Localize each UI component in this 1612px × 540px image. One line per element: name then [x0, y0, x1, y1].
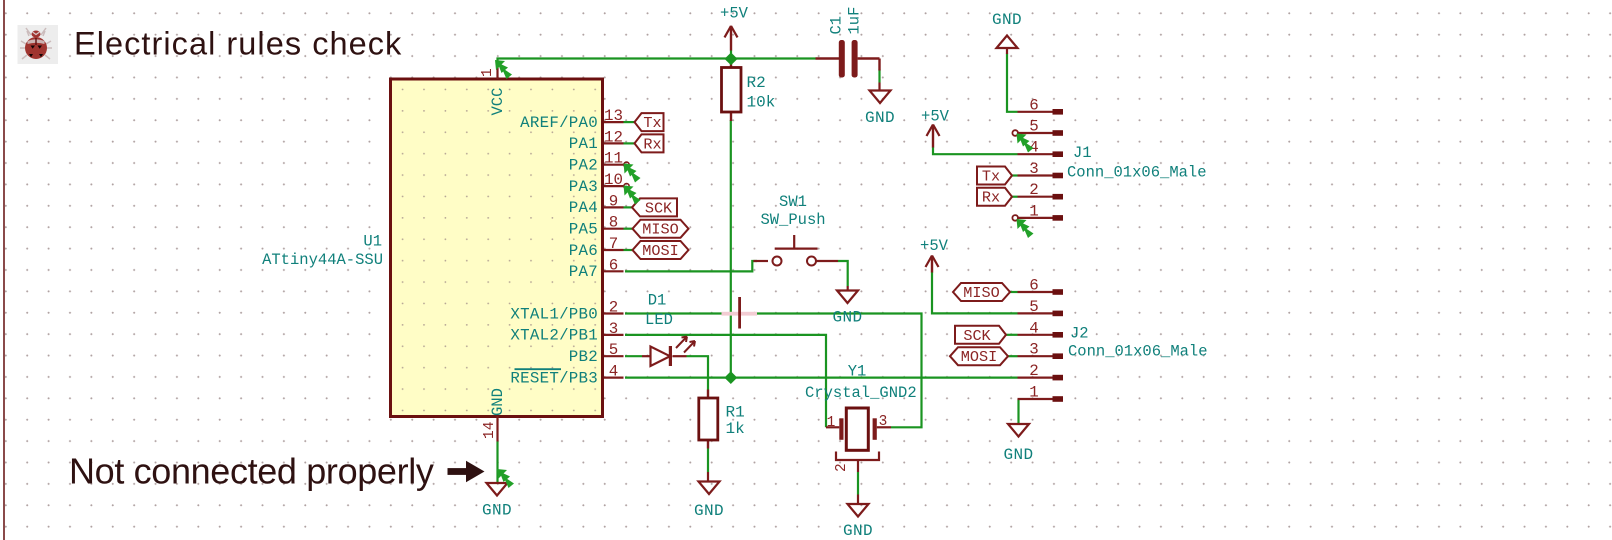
svg-text:6: 6: [609, 256, 618, 274]
crystal Y1: [826, 426, 839, 428]
U1 pin 14 (GND): [496, 416, 498, 442]
marker at GND pin14: [497, 469, 514, 488]
wire R1 bottom to GND: [707, 449, 709, 473]
svg-text:VCC: VCC: [489, 88, 507, 116]
svg-text:XTAL2/PB1: XTAL2/PB1: [510, 327, 598, 345]
svg-text:SCK: SCK: [963, 327, 991, 345]
svg-text:3: 3: [1029, 341, 1038, 359]
svg-text:1: 1: [827, 415, 836, 431]
svg-text:SW_Push: SW_Push: [760, 211, 825, 229]
switch SW1: [753, 260, 768, 262]
svg-text:1: 1: [1029, 384, 1038, 402]
GND below R1: [707, 472, 709, 482]
svg-text:6: 6: [1029, 96, 1038, 114]
svg-text:1k: 1k: [726, 420, 745, 438]
svg-text:AREF/PA0: AREF/PA0: [520, 114, 598, 132]
wire SCK stub pin9: [624, 206, 633, 208]
svg-text:6: 6: [1029, 277, 1038, 295]
connector J2: [1018, 291, 1057, 293]
label SCK at J2: [955, 326, 1006, 344]
svg-text:Rx: Rx: [643, 135, 661, 153]
wire GND to J1 pin6: [1007, 54, 1018, 112]
label MOSI at U1: [633, 241, 689, 259]
svg-text:Electrical rules check: Electrical rules check: [74, 26, 402, 62]
IC U1 body: [391, 79, 603, 417]
GND below J2 pin1: [1008, 424, 1029, 437]
wire SCK label to J2 pin4: [1006, 334, 1018, 336]
svg-text:ATtiny44A-SSU: ATtiny44A-SSU: [262, 251, 383, 269]
svg-text:9: 9: [609, 192, 618, 210]
wire C1 right to GND: [878, 70, 880, 83]
U1 pin 5 (PB2): [604, 355, 624, 357]
wire +5V stem to rail: [730, 50, 732, 59]
label Rx at J1: [977, 188, 1012, 206]
svg-text:3: 3: [879, 414, 888, 430]
connector J1: [1018, 111, 1057, 113]
marker at J1 pin5: [1017, 134, 1034, 153]
marker at U1 pin1: [495, 60, 512, 79]
marker at U1 pin11: [624, 164, 641, 183]
svg-text:Y1: Y1: [848, 363, 867, 381]
svg-text:+5V: +5V: [920, 237, 949, 255]
svg-text:Tx: Tx: [982, 168, 1000, 186]
unconnected circle U1 pin10: [624, 184, 629, 189]
svg-text:5: 5: [1029, 118, 1038, 136]
wire +5V to J2 pin5: [932, 272, 1018, 313]
svg-text:2: 2: [1029, 181, 1038, 199]
U1 pin 4 (RESET/PB3): [604, 377, 624, 379]
svg-text:C1: C1: [828, 16, 846, 35]
annotation arrow: [448, 468, 470, 475]
svg-text:+5V: +5V: [720, 5, 749, 23]
svg-text:J2: J2: [1070, 325, 1089, 343]
svg-text:2: 2: [1029, 362, 1038, 380]
svg-text:XTAL1/PB0: XTAL1/PB0: [510, 305, 598, 323]
GND below U1 pin14: [487, 483, 508, 496]
svg-text:Not connected properly: Not connected properly: [69, 451, 434, 492]
svg-text:GND: GND: [843, 522, 873, 540]
svg-text:1: 1: [1029, 202, 1038, 220]
svg-text:R2: R2: [747, 74, 766, 92]
svg-text:MISO: MISO: [642, 221, 678, 239]
svg-text:SCK: SCK: [645, 199, 673, 217]
svg-text:12: 12: [604, 128, 623, 146]
resistor R1: [707, 390, 709, 399]
svg-text:MOSI: MOSI: [642, 242, 678, 260]
svg-text:PA1: PA1: [569, 135, 598, 153]
svg-text:GND: GND: [992, 11, 1022, 29]
svg-text:Rx: Rx: [982, 189, 1000, 207]
svg-text:D1: D1: [648, 292, 667, 310]
U1 pin 11 (PA2): [604, 164, 624, 166]
marker at U1 pin10: [624, 186, 641, 205]
wire U1 pin14 to GND: [496, 442, 498, 484]
U1 pin 2 (XTAL1/PB0): [604, 312, 624, 314]
svg-text:+5V: +5V: [921, 108, 950, 126]
svg-text:8: 8: [609, 214, 618, 232]
svg-text:MISO: MISO: [963, 284, 999, 302]
svg-text:1uF: 1uF: [846, 7, 864, 35]
svg-text:GND: GND: [865, 109, 895, 127]
wire Y1 pin2 to GND: [857, 472, 859, 495]
wire VCC pin1 to +5V rail: [498, 59, 816, 64]
U1 pin 9 (PA4): [604, 206, 624, 208]
svg-text:PA7: PA7: [569, 263, 598, 281]
svg-text:GND: GND: [832, 309, 862, 327]
label Tx at U1: [635, 113, 664, 131]
svg-text:PB2: PB2: [569, 348, 598, 366]
svg-text:Conn_01x06_Male: Conn_01x06_Male: [1068, 343, 1208, 361]
wire MOSI stub pin7: [624, 249, 633, 251]
+5V above R2: [725, 26, 732, 38]
label SCK at U1: [632, 198, 677, 216]
wire +5V to J1 pin4: [933, 147, 1018, 154]
svg-text:Crystal_GND2: Crystal_GND2: [805, 384, 917, 402]
svg-text:5: 5: [609, 341, 618, 359]
svg-text:3: 3: [609, 320, 618, 338]
wire LED cathode to R1: [687, 356, 709, 389]
svg-text:GND: GND: [489, 388, 507, 416]
svg-text:11: 11: [604, 150, 623, 168]
svg-text:13: 13: [604, 107, 623, 125]
ERC bug icon: [18, 25, 59, 64]
svg-text:Tx: Tx: [643, 114, 661, 132]
GND below SW1: [847, 286, 849, 291]
svg-text:1: 1: [480, 68, 496, 77]
U1 pin 12 (PA1): [604, 142, 624, 144]
svg-text:PA2: PA2: [569, 157, 598, 175]
label MOSI at J2: [950, 347, 1008, 365]
svg-text:GND: GND: [482, 502, 512, 520]
svg-text:SW1: SW1: [779, 193, 807, 211]
wire RESET to J2 pin2: [625, 377, 1018, 379]
GND below C1: [878, 83, 880, 91]
svg-text:14: 14: [482, 422, 498, 439]
capacitor C1: [816, 57, 840, 59]
svg-text:Conn_01x06_Male: Conn_01x06_Male: [1067, 164, 1207, 182]
U1 pin 8 (PA5): [604, 228, 624, 230]
resistor R2: [730, 59, 732, 68]
svg-text:4: 4: [1029, 319, 1038, 337]
wire Tx stub pin13: [624, 121, 635, 123]
svg-text:5: 5: [1029, 298, 1038, 316]
svg-text:4: 4: [609, 363, 618, 381]
marker at J1 pin1: [1017, 219, 1034, 238]
svg-text:MOSI: MOSI: [961, 348, 997, 366]
svg-text:7: 7: [609, 235, 618, 253]
sheet border line: [3, 0, 5, 540]
U1 pin 13 (AREF/PA0): [604, 121, 624, 123]
svg-text:RESET/PB3: RESET/PB3: [510, 369, 598, 387]
label MISO at J2: [953, 283, 1010, 301]
svg-text:PA5: PA5: [569, 221, 598, 239]
U1 pin 6 (PA7): [604, 270, 624, 272]
overlap artifact: [722, 312, 758, 316]
wire Rx stub pin12: [624, 142, 635, 144]
wire J2 pin1 to GND: [1017, 399, 1019, 424]
svg-text:R1: R1: [726, 404, 745, 422]
svg-text:10k: 10k: [747, 94, 776, 112]
svg-text:PA4: PA4: [569, 199, 598, 217]
+5V at J1: [927, 125, 934, 137]
GND above J1 pin6: [1006, 48, 1008, 54]
svg-text:GND: GND: [694, 502, 724, 520]
wire XTAL1 to Y1 pin3: [625, 314, 922, 428]
+5V at J2: [926, 256, 933, 268]
wire XTAL2 to Y1 pin1: [625, 335, 826, 427]
svg-text:U1: U1: [363, 233, 382, 251]
junction at +5V rail: [725, 53, 738, 66]
U1 pin 1 (VCC): [496, 63, 498, 79]
unconnected circle U1 pin11: [624, 162, 629, 167]
junction at RESET net: [724, 371, 737, 384]
wire MISO stub pin8: [624, 228, 633, 230]
svg-text:LED: LED: [645, 311, 673, 329]
label MISO at U1: [633, 220, 689, 238]
U1 pin 10 (PA3): [604, 185, 624, 187]
svg-text:10: 10: [604, 171, 623, 189]
wire PB2 to LED anode: [625, 355, 642, 357]
svg-text:PA3: PA3: [569, 178, 598, 196]
red bar artifact: [738, 297, 741, 329]
svg-text:3: 3: [1029, 160, 1038, 178]
U1 pin 7 (PA6): [604, 249, 624, 251]
diode D1 (LED): [642, 355, 651, 357]
label Rx at U1: [635, 134, 664, 152]
label Tx at J1: [977, 167, 1012, 185]
svg-text:J1: J1: [1073, 144, 1092, 162]
U1 pin 3 (XTAL2/PB1): [604, 334, 624, 336]
wire R2 bottom to RESET net: [730, 120, 732, 378]
wire MISO label to J2 pin6: [1010, 291, 1018, 293]
svg-text:2: 2: [834, 463, 850, 472]
svg-text:2: 2: [609, 299, 618, 317]
wire MOSI label to J2 pin3: [1008, 355, 1018, 357]
wire SW1 to GND: [838, 261, 848, 286]
svg-text:PA6: PA6: [569, 242, 598, 260]
wire Rx label to J1 pin2: [1012, 196, 1018, 198]
wire Tx label to J1 pin3: [1012, 174, 1018, 176]
wire PA7 to SW1: [625, 261, 757, 271]
GND below Y1: [857, 495, 859, 505]
svg-text:GND: GND: [1003, 446, 1033, 464]
